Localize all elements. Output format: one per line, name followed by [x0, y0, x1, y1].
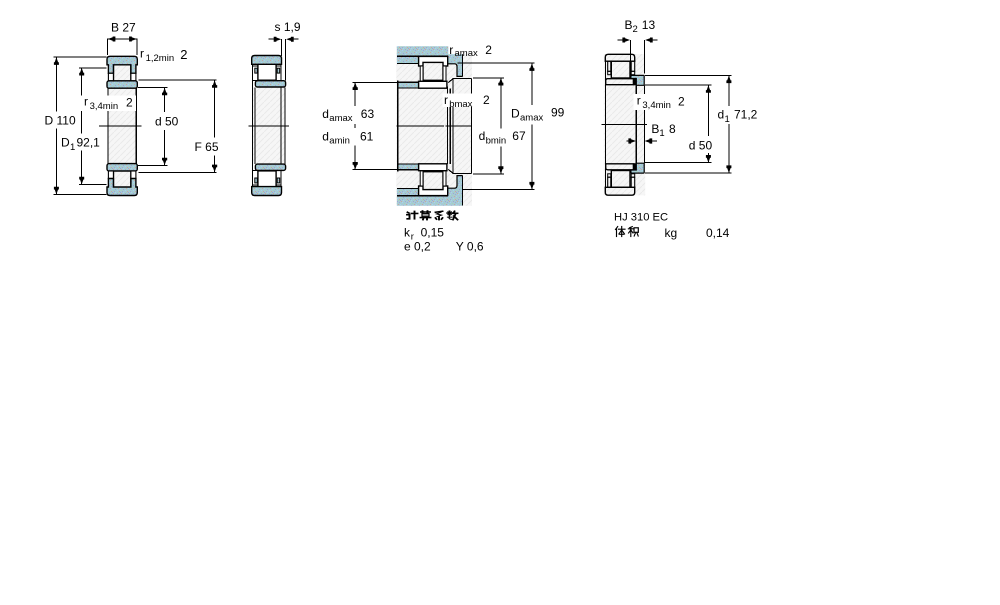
dimension B 27: [107, 21, 137, 55]
svg-text:d 50: d 50: [689, 139, 713, 153]
svg-text:s 1,9: s 1,9: [275, 20, 301, 34]
fig4 background (hatched): [604, 54, 645, 195]
svg-text:1: 1: [725, 114, 730, 125]
fig1 roller bottom (hatched): [114, 171, 131, 188]
dimension D1 92,1: [61, 68, 107, 185]
fig2 roller top: [258, 64, 276, 81]
fig3 housing bottom (sectioned): [397, 176, 463, 206]
svg-text:2: 2: [126, 96, 133, 110]
fig2 inner ring left face line: [254, 87, 256, 164]
svg-text:2: 2: [483, 93, 490, 107]
svg-text:r: r: [449, 43, 453, 57]
dimension d_bmin 67: [473, 78, 526, 174]
fig1 bore silhouette right line: [135, 88, 137, 163]
dimension d1 71,2: [645, 75, 758, 173]
svg-text:B: B: [625, 18, 633, 32]
fig4 flange top-left: [608, 61, 611, 71]
svg-text:2: 2: [485, 43, 492, 57]
svg-text:F 65: F 65: [195, 140, 219, 154]
fig2 outer raceway line top: [253, 65, 281, 67]
dimension s 1,9: [269, 20, 301, 81]
svg-text:99: 99: [551, 106, 565, 120]
svg-text:2: 2: [633, 24, 638, 35]
fig2 inner band top edge line: [253, 80, 284, 82]
svg-text:bmax: bmax: [449, 99, 472, 110]
fig2 outer raceway line bottom: [253, 184, 281, 186]
fig2 flange bit top-left: [255, 68, 257, 73]
svg-text:B: B: [651, 122, 659, 136]
svg-text:92,1: 92,1: [77, 136, 101, 150]
fig3 cage bar bottom-left: [420, 171, 423, 186]
svg-text:amax: amax: [520, 113, 543, 124]
fig4 bearing left face line: [604, 61, 606, 187]
label r_bmax 2: [443, 93, 491, 110]
fig2 inner ring bottom band: [255, 164, 285, 170]
fig3 roller top: [423, 62, 443, 80]
label k_r 0,15: [404, 225, 444, 242]
svg-text:B 27: B 27: [111, 21, 136, 35]
fig3 shaft shoulder bottom (sectioned): [398, 164, 419, 170]
fig4 axis line: [602, 123, 648, 125]
fig3 shaft cut edge: [397, 81, 399, 172]
fig4 outer ring top outline: [605, 54, 634, 61]
svg-text:0,15: 0,15: [421, 225, 445, 239]
dimension D 110: [45, 57, 107, 194]
label r3,4min 2 (fig4): [634, 94, 688, 111]
fig1 outer ring top (band + integral flanges): [107, 56, 137, 73]
dimension d 50 (fig4): [645, 85, 712, 163]
fig4 flange top-right: [631, 61, 635, 71]
svg-text:13: 13: [642, 18, 656, 32]
svg-text:r: r: [84, 95, 88, 109]
fig3 outer ring top: [419, 56, 448, 66]
fig1 bore silhouette left line: [107, 88, 109, 163]
fig2 roller bottom: [258, 171, 276, 188]
svg-text:1: 1: [659, 128, 664, 139]
dimension d 50 (fig1): [138, 88, 179, 166]
svg-text:d 50: d 50: [155, 114, 179, 128]
svg-text:1,2min: 1,2min: [146, 53, 175, 64]
fig4 inner ring right face line: [635, 85, 637, 163]
fig3 outer ring bottom: [419, 186, 448, 196]
fig3 inner ring bottom: [419, 164, 447, 171]
fig1 shaft bore column (hatched): [108, 88, 137, 163]
fig2 flange bit bottom-left: [255, 178, 257, 183]
dimension F 65: [139, 80, 219, 172]
dimension B1 8: [626, 122, 676, 144]
fig1 cage bar bottom-left: [108, 171, 113, 179]
svg-text:3,4min: 3,4min: [642, 100, 671, 111]
fig3 background (hatched air/metal): [396, 46, 472, 206]
text 计算系数 (calculation factors): [407, 211, 458, 220]
svg-text:71,2: 71,2: [734, 108, 758, 122]
fig4 roller top outline: [611, 61, 630, 78]
fig4 outer ring bottom outline: [605, 187, 634, 195]
svg-text:amax: amax: [455, 48, 478, 59]
fig2 outer ring top band: [252, 56, 282, 65]
svg-text:2: 2: [678, 95, 685, 109]
svg-text:63: 63: [361, 107, 375, 121]
fig3 cage bar bottom-right: [443, 171, 446, 186]
svg-text:3,4min: 3,4min: [90, 101, 119, 112]
svg-text:8: 8: [669, 122, 676, 136]
fig4 HJ angle ring top (blue): [631, 75, 644, 85]
svg-text:D: D: [61, 136, 70, 150]
fig4 inner ring top band outline: [606, 79, 634, 85]
fig1 inner ring bottom band (sectioned): [107, 164, 137, 171]
fig3 inner ring top: [419, 81, 447, 88]
svg-text:d: d: [322, 107, 329, 121]
svg-text:D: D: [511, 106, 520, 120]
svg-text:r: r: [444, 93, 448, 107]
fig3 shaft shoulder top (sectioned): [398, 82, 419, 88]
fig4 HJ ring right face line: [643, 85, 645, 163]
fig4 flange bottom-right: [631, 174, 635, 177]
svg-text:2: 2: [180, 47, 187, 62]
fig1 cage bar top-right: [131, 73, 136, 81]
dimension D_amax 99: [458, 63, 565, 189]
fig3 cage bar top-left: [420, 66, 423, 81]
fig4 inner ring bottom band outline: [606, 164, 634, 170]
svg-text:kg: kg: [665, 226, 678, 240]
fig1 axis line: [99, 125, 142, 127]
label r_amax 2: [448, 43, 493, 59]
fig1 roller top (hatched): [114, 64, 131, 81]
fig2 flange bit top-right: [277, 68, 280, 73]
fig4 HJ angle ring bottom (blue): [631, 163, 644, 173]
svg-text:amax: amax: [329, 113, 352, 124]
svg-text:HJ 310 EC: HJ 310 EC: [614, 211, 668, 223]
label r1,2min 2: [140, 46, 188, 63]
fig4 roller bottom outline: [611, 171, 630, 188]
fig2 inner ring top band: [255, 81, 285, 87]
fig3 abutment ring (db): [448, 79, 471, 174]
svg-text:1: 1: [70, 142, 75, 153]
fig1 cage bar top-left: [108, 73, 113, 81]
fig2 inner ring column (hatched): [252, 88, 285, 164]
fig1 outer ring bottom (band + integral flanges): [107, 179, 137, 196]
svg-text:D 110: D 110: [45, 113, 76, 127]
fig3 bore/seat line bottom: [398, 163, 447, 165]
dimension B2 13: [618, 18, 658, 75]
fig3 cage bar top-right: [443, 66, 446, 81]
fig2 inner band bottom edge line: [253, 170, 284, 172]
fig2 outer ring bottom band: [252, 187, 282, 196]
fig3 bore/seat line top: [398, 87, 447, 89]
fig2 inner ring right face line: [284, 87, 286, 164]
svg-text:r: r: [637, 94, 641, 108]
svg-text:bmin: bmin: [486, 135, 507, 146]
fig4 flange bottom-left: [608, 174, 611, 177]
svg-text:Y 0,6: Y 0,6: [456, 239, 484, 253]
fig1 bearing cross-section: [99, 56, 142, 195]
fig3 shaft step line right: [449, 88, 451, 164]
fig1 cage bar bottom-right: [131, 171, 136, 179]
svg-text:0,14: 0,14: [706, 226, 730, 240]
fig1 inner ring top band (sectioned): [107, 81, 137, 88]
svg-text:d: d: [479, 129, 486, 143]
text 体积 (mass): [616, 227, 639, 237]
fig3 roller bottom: [423, 172, 443, 190]
fig2 outer ring right face line: [280, 64, 282, 187]
fig2 flange bit bottom-right: [277, 178, 280, 183]
fig3 shaft step line left: [446, 87, 448, 164]
fig3 housing top (sectioned): [397, 46, 463, 76]
svg-text:amin: amin: [329, 136, 350, 147]
fig2 bearing side view: [249, 56, 290, 196]
fig2 outer ring left face line: [251, 64, 253, 187]
svg-text:d: d: [322, 129, 329, 143]
fig2 axis line: [249, 125, 290, 127]
svg-text:61: 61: [360, 129, 374, 143]
dimension d_amax 63 / d_amin 61: [322, 82, 397, 169]
fig3 axis line: [397, 125, 444, 127]
svg-text:d: d: [718, 108, 725, 122]
svg-text:67: 67: [512, 129, 526, 143]
label r3,4min 2 (fig1): [81, 95, 136, 112]
svg-text:e 0,2: e 0,2: [404, 239, 431, 253]
svg-text:r: r: [140, 46, 144, 60]
